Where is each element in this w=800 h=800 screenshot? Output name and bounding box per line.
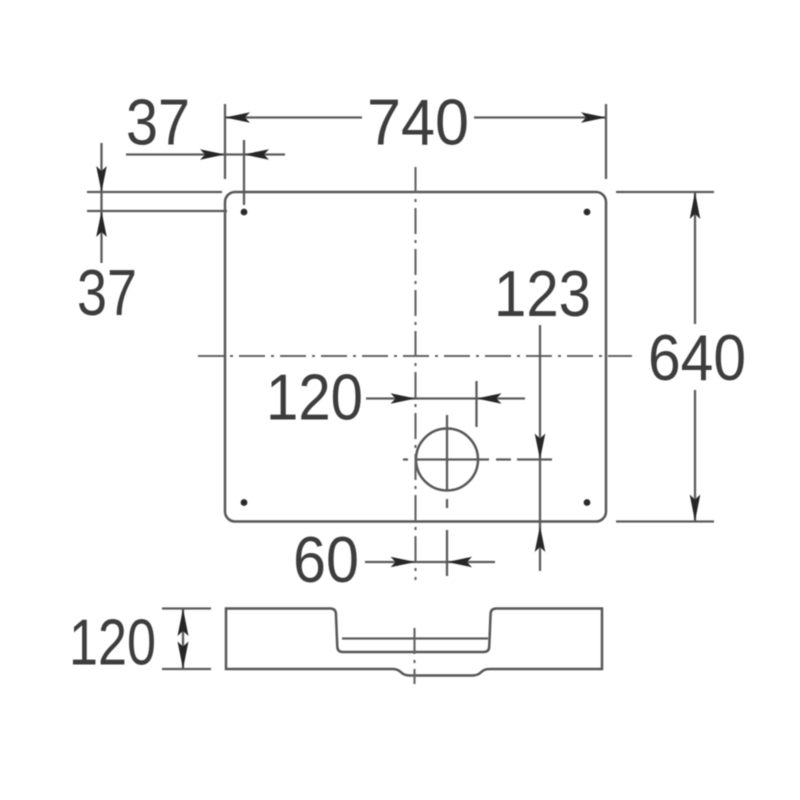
svg-text:740: 740	[367, 86, 469, 159]
svg-text:123: 123	[494, 257, 591, 330]
svg-text:37: 37	[77, 256, 137, 329]
svg-text:640: 640	[648, 321, 746, 394]
svg-text:120: 120	[266, 361, 363, 434]
svg-text:60: 60	[293, 523, 359, 596]
svg-text:37: 37	[126, 86, 190, 159]
svg-text:120: 120	[69, 606, 156, 679]
